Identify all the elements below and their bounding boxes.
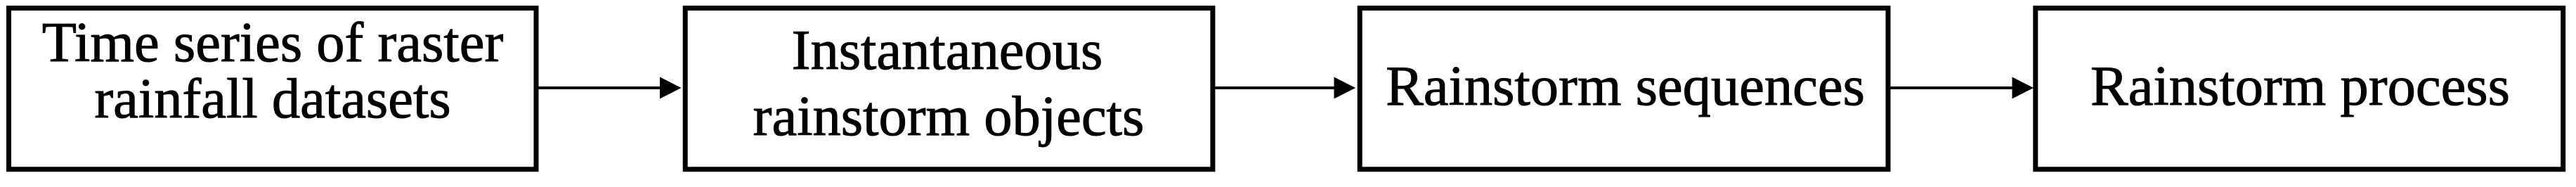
svg-text:rainfall datasets: rainfall datasets — [94, 67, 450, 130]
arrow 2 head — [1334, 77, 1356, 99]
svg-text:Instantaneous: Instantaneous — [792, 19, 1103, 82]
box 3: Rainstorm sequences — [1360, 8, 1888, 169]
wire: arrow 3 shaft — [1890, 86, 2014, 89]
box 4: Rainstorm process — [2036, 8, 2563, 169]
box 1: Time series of raster rainfall datasets — [9, 8, 537, 169]
arrow 3 head — [2012, 77, 2034, 99]
svg-text:rainstorm objects: rainstorm objects — [753, 85, 1145, 148]
wire: arrow 1 shaft — [538, 86, 662, 89]
arrow 1 head — [660, 77, 682, 99]
svg-text:Time series of raster: Time series of raster — [42, 11, 504, 74]
svg-text:Rainstorm sequences: Rainstorm sequences — [1386, 55, 1865, 117]
svg-text:Rainstorm process: Rainstorm process — [2090, 55, 2510, 117]
box 2: Instantaneous rainstorm objects — [685, 8, 1213, 169]
wire: arrow 2 shaft — [1215, 86, 1336, 89]
